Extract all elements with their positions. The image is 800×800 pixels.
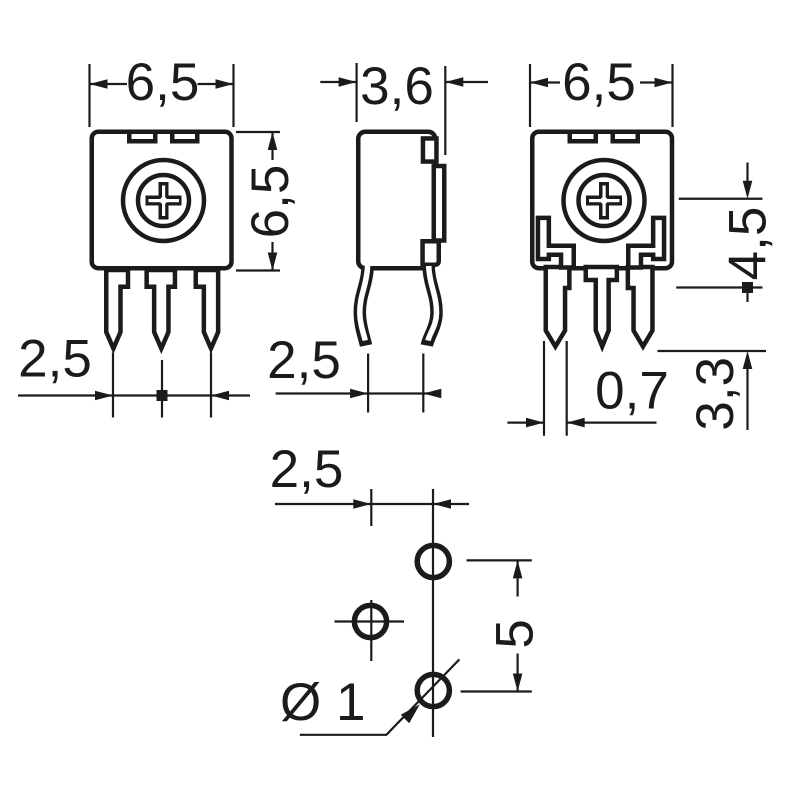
dim width 6,5 top: arrows [90, 79, 108, 89]
view2 top notch box [423, 138, 437, 161]
hole B middle-left crosshair [335, 620, 405, 622]
svg-text:6,5: 6,5 [126, 53, 200, 112]
dim 3,3: arrow pointing up [743, 351, 753, 369]
view3 pin 2 (middle) [586, 267, 617, 347]
svg-text:3,6: 3,6 [360, 57, 434, 116]
dim width 3,6 view2: extension lines [320, 63, 488, 155]
dim 2,5 view2: arrows [350, 389, 368, 399]
view2 left pin inner white [360, 266, 368, 341]
view3 left mounting clip [538, 218, 574, 268]
leader arrowhead at hole C edge [401, 704, 420, 723]
dim 3,6: arrows outside pointing in [339, 77, 357, 87]
dim 6,5 view3: arrows [530, 78, 548, 88]
view1 pin 2 (middle) [147, 270, 175, 349]
dim 4,5: arrow pointing down [743, 181, 753, 199]
dim 2,5 view1: middle square marker [157, 390, 168, 401]
dim 4,5: square marker [742, 282, 753, 293]
view3 pin 3 (right) [628, 267, 653, 347]
svg-text:3,3: 3,3 [686, 357, 745, 431]
dim 3,3 view3 right: extension line at pin tips [658, 351, 767, 430]
svg-text:2,5: 2,5 [18, 330, 92, 389]
view2 left pin (black tube) [360, 268, 368, 346]
svg-text:0,7: 0,7 [595, 362, 669, 421]
view2 right pin (black tube) [427, 268, 437, 346]
footprint dim 5: arrows pointing out [513, 560, 523, 578]
dim 0,7 view3: extension lines [507, 341, 656, 436]
svg-text:6,5: 6,5 [562, 53, 636, 112]
dim height 6,5 right of view1: extension lines [236, 132, 280, 271]
footprint dim 2,5: lines [275, 489, 469, 737]
view3 right mounting clip [628, 218, 664, 268]
hole C bottom [417, 674, 449, 706]
dim width 6,5 view3 top: extension lines [530, 64, 673, 127]
svg-text:2,5: 2,5 [270, 440, 344, 499]
leader line for diameter through hole C [300, 659, 460, 734]
svg-text:6,5: 6,5 [241, 165, 300, 239]
svg-text:2,5: 2,5 [267, 331, 341, 390]
dim 2,5 view1: arrows outside pointing in [95, 391, 113, 401]
view2 rotor tab [434, 166, 445, 241]
svg-text:4,5: 4,5 [719, 207, 778, 281]
view1 pin 1 (left) [106, 270, 128, 349]
dim width 6,5 top: extension lines [90, 64, 234, 127]
view2 bottom notch box [423, 241, 439, 265]
dim 0,7: arrows outside pointing in [526, 418, 544, 428]
dim height 6,5 right: arrows [268, 132, 278, 150]
view1 pin 3 (right) [196, 270, 218, 349]
view2 right pin inner white [428, 266, 437, 341]
footprint dim 5: extension lines [461, 560, 532, 691]
svg-text:Ø 1: Ø 1 [280, 673, 365, 732]
dim pin pitch 2,5 view1: extension lines below pins [18, 353, 250, 418]
dim pin pitch 2,5 view2: extension lines [276, 354, 440, 413]
dim 4,5 view3 right: extension lines [676, 163, 762, 303]
view2 body outline [358, 132, 435, 269]
view3 pin 1 (left) [546, 267, 570, 347]
view1 body with screw [92, 132, 232, 269]
hole A top [417, 545, 449, 577]
hole B middle-left [354, 605, 386, 637]
view3 body with screw [532, 132, 672, 269]
footprint dim 2,5: arrows [353, 499, 371, 509]
svg-text:5: 5 [486, 619, 545, 648]
